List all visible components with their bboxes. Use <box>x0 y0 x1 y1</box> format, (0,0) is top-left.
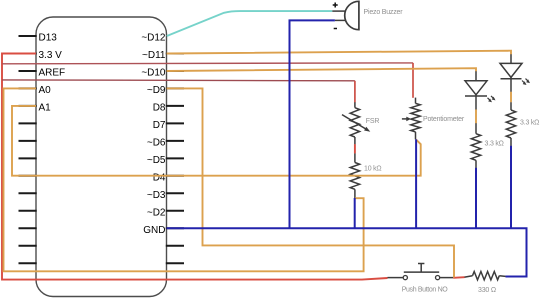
wire orange LED1 cathode to resistor <box>475 110 477 124</box>
wire orange ~D9 to push button <box>167 88 455 277</box>
svg-text:~D3: ~D3 <box>147 190 166 201</box>
FSR R1 leads <box>354 102 356 198</box>
svg-text:~D11: ~D11 <box>142 50 166 61</box>
LED2 cathode bar <box>501 78 522 80</box>
svg-text:A1: A1 <box>39 103 52 114</box>
svg-text:~D6: ~D6 <box>147 138 166 149</box>
svg-text:D4: D4 <box>153 172 166 183</box>
svg-text:Piezo Buzzer: Piezo Buzzer <box>364 9 404 16</box>
wire blue GND line to 330R <box>167 228 527 276</box>
LED1 triangle <box>465 81 487 95</box>
resistor 3.3k (LED1) zigzag <box>471 134 480 161</box>
wire red FSR to 10k link <box>354 144 356 153</box>
LED1 leads <box>475 71 477 168</box>
svg-text:~D2: ~D2 <box>147 207 166 218</box>
left pin stubs <box>19 36 37 263</box>
LED1 emission arrows <box>488 96 495 101</box>
svg-text:A0: A0 <box>39 85 52 96</box>
wire orange A1 to potentiometer bottom <box>12 106 421 176</box>
svg-text:10 kΩ: 10 kΩ <box>364 166 381 173</box>
svg-text:3.3 kΩ: 3.3 kΩ <box>520 120 539 127</box>
svg-text:D13: D13 <box>39 33 58 44</box>
buzzer plus mark <box>333 3 338 8</box>
wire blue LED1 resistor to GND <box>475 168 477 229</box>
svg-text:FSR: FSR <box>366 118 380 125</box>
resistor 3.3k (LED2) zigzag <box>506 110 515 138</box>
FSR R1 zigzag <box>350 108 359 137</box>
wire orange A0 to FSR/10k junction <box>4 88 364 271</box>
wire teal ~D12 to buzzer plus <box>167 11 332 36</box>
wire blue potentiometer bottom to GND <box>415 139 417 228</box>
left pin labels <box>39 33 66 114</box>
wire red 3.3V to left rail, down, bottom rail to push button <box>2 54 388 280</box>
svg-text:~D5: ~D5 <box>147 155 166 166</box>
push button S1 bar and plunger <box>404 264 439 273</box>
resistor 330R leads <box>464 276 473 278</box>
resistor 330R zigzag <box>473 272 500 280</box>
buzzer minus mark <box>334 28 337 30</box>
svg-text:D8: D8 <box>153 103 166 114</box>
wire blue 10k bottom to GND <box>354 198 356 228</box>
right pin stubs <box>166 54 184 264</box>
wire orange ~D11 to LED2 anode <box>167 51 512 55</box>
piezo buzzer LS1 body <box>345 1 359 29</box>
LED2 emission arrows <box>522 79 529 84</box>
svg-text:Push Button NO: Push Button NO <box>402 287 449 294</box>
potentiometer wiper arrow <box>402 118 408 120</box>
svg-text:AREF: AREF <box>39 68 66 79</box>
svg-text:330 Ω: 330 Ω <box>478 287 496 294</box>
LED2 triangle <box>500 63 522 77</box>
wire blue LED2 resistor to GND <box>510 146 512 229</box>
svg-text:D7: D7 <box>153 120 166 131</box>
push button S1 leads <box>388 277 454 279</box>
svg-text:Potentiometer: Potentiometer <box>423 116 465 123</box>
FSR arrow <box>342 115 367 130</box>
LED2 leads <box>510 54 512 146</box>
push button S1 contacts <box>403 276 407 280</box>
wire red rail to potentiometer top <box>2 62 413 65</box>
IC U1 Arduino body <box>36 17 167 297</box>
svg-text:3.3 V: 3.3 V <box>39 50 63 61</box>
svg-text:GND: GND <box>143 225 165 236</box>
resistor 10k zigzag <box>350 163 359 190</box>
wire orange ~D10 to LED1 anode <box>167 68 477 71</box>
svg-text:~D9: ~D9 <box>147 85 166 96</box>
wire red push button to 330R link <box>453 276 464 279</box>
right pin labels <box>141 33 166 236</box>
potentiometer R2 zigzag <box>411 103 420 131</box>
svg-text:~D12: ~D12 <box>141 33 166 44</box>
potentiometer R2 leads <box>415 98 417 140</box>
LED1 cathode bar <box>465 95 487 97</box>
wire red rail to FSR top <box>2 79 355 82</box>
svg-text:~D10: ~D10 <box>141 68 166 79</box>
svg-text:3.3 kΩ: 3.3 kΩ <box>485 141 504 148</box>
wire orange LED2 cathode to resistor <box>510 92 512 102</box>
wire blue buzzer minus to GND line <box>290 20 335 228</box>
piezo buzzer LS1 leads <box>332 10 345 12</box>
